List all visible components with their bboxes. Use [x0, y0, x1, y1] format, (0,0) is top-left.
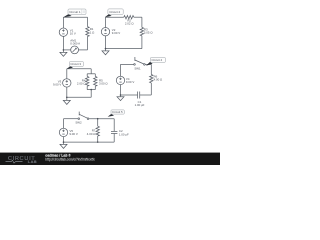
wire: C2 left lower: [105, 36, 107, 49]
resistor R6: [150, 75, 153, 84]
label box Circuit 2: [108, 9, 123, 15]
wire: C5 right lower: [113, 134, 115, 143]
svg-text:1.00 μF: 1.00 μF: [119, 132, 129, 136]
wire: C1 top: [63, 16, 87, 18]
wire: C3 left upper: [66, 69, 68, 79]
ground (circuit 5): [63, 142, 65, 144]
wire: C1 bottom left: [63, 49, 70, 51]
label R2 value: [125, 19, 134, 26]
wire: C1 left upper: [62, 17, 64, 28]
flag callout (circuit 4): [146, 62, 153, 66]
label V4 value: [126, 77, 134, 84]
svg-text:9.00 V: 9.00 V: [69, 132, 77, 136]
svg-text:Circuit 3: Circuit 3: [70, 62, 81, 66]
wire: C5 R7 branch lower: [97, 136, 99, 142]
wire: C5 top left: [64, 118, 79, 120]
label box Circuit 3: [69, 62, 83, 67]
voltage source V3: [63, 79, 71, 87]
svg-text:Circuit 4: Circuit 4: [152, 58, 163, 62]
wire: C1 right upper: [87, 17, 89, 26]
label box Circuit 1: [68, 9, 86, 15]
wire: C2 bottom: [106, 48, 142, 50]
svg-text:4.00 Ω: 4.00 Ω: [154, 78, 163, 82]
wire: C3 left branch lower lead: [86, 86, 88, 89]
svg-text:1 Ω: 1 Ω: [90, 30, 95, 34]
label R6 value: [154, 75, 163, 82]
svg-text:5.05 Ω: 5.05 Ω: [144, 31, 153, 35]
svg-text:10 V: 10 V: [70, 32, 76, 36]
svg-text:3.00 Ω: 3.00 Ω: [99, 82, 108, 86]
label box Circuit 4: [150, 58, 165, 63]
label V5 value: [69, 129, 77, 136]
svg-text:9.00 V: 9.00 V: [126, 80, 134, 84]
label AM1 value: [70, 38, 80, 45]
wire: C4 bottom right: [140, 94, 152, 96]
label V1 value: [70, 29, 76, 36]
node: C4 ground junction: [120, 94, 122, 96]
svg-text:9.00 V: 9.00 V: [53, 82, 61, 86]
wire: C4 top left: [121, 63, 134, 65]
wire: C4 top right: [145, 63, 151, 65]
voltage source V1: [59, 28, 67, 36]
node: C3 ground junction: [66, 97, 68, 99]
wire: C5 left lower: [63, 137, 65, 142]
wire: C3 right branch upper lead: [94, 74, 96, 77]
label R1 value: [90, 27, 95, 34]
wire: C4 bottom left: [121, 94, 138, 96]
wire: C3 left branch upper lead: [86, 74, 88, 77]
svg-text:LAB: LAB: [28, 160, 37, 164]
svg-text:1.00 μF: 1.00 μF: [135, 103, 145, 107]
svg-text:0.000 A: 0.000 A: [70, 41, 80, 45]
wire: C4 left upper: [120, 64, 122, 76]
label R7 value: [87, 129, 96, 136]
voltage source V4: [116, 76, 124, 84]
switch SW2: [78, 118, 80, 120]
wire: C3 bottom: [67, 96, 91, 98]
wire: C5 R7 branch upper: [97, 119, 99, 127]
label V2 value: [112, 28, 120, 35]
wire: C1 left lower: [62, 36, 64, 50]
wire: C3 right branch lower lead: [94, 86, 96, 89]
capacitor C2: [111, 130, 117, 132]
label R3 value: [144, 28, 153, 35]
wire: C2 left upper: [105, 17, 107, 27]
voltage source V2: [101, 28, 109, 36]
ammeter AM1: [71, 46, 79, 54]
wire: C3 parallel top bar: [87, 73, 95, 75]
node: C2 ground junction: [105, 48, 107, 50]
capacitor C1: [139, 92, 141, 99]
node: C1 ground junction: [63, 49, 65, 51]
wire: C2 top left: [106, 16, 124, 18]
wire: C5 top right: [89, 118, 114, 120]
wire: C4 left lower: [120, 85, 122, 95]
resistor R2: [124, 16, 134, 19]
label V3 value: [53, 79, 62, 86]
node: C5 R7 bottom junction: [97, 141, 99, 143]
switch SW1: [134, 64, 136, 66]
svg-text:Circuit 5: Circuit 5: [112, 110, 123, 114]
svg-text:9.00 V: 9.00 V: [112, 31, 120, 35]
svg-text:2.02 Ω: 2.02 Ω: [125, 22, 134, 26]
resistor R5: [94, 76, 97, 86]
wire: C3 parallel bottom bar: [87, 89, 95, 91]
ground (circuit 1): [62, 50, 64, 53]
label C2 value: [119, 129, 129, 136]
svg-text:2.00 Ω: 2.00 Ω: [77, 82, 86, 86]
ground (circuit 3): [66, 97, 68, 100]
wire: C3 drop from parallel bottom bar: [90, 90, 92, 98]
resistor R7: [96, 126, 99, 136]
svg-text:http://circuitlab.com/c/7kv5mf: http://circuitlab.com/c/7kv5mf9cx6k: [45, 157, 95, 161]
wire: C3 left lower: [66, 87, 68, 97]
wire: C2 top right: [134, 16, 142, 18]
wire: C2 right upper: [141, 17, 143, 27]
wire: C4 right upper: [150, 64, 152, 74]
node: C3 parallel bottom junction: [90, 89, 92, 91]
wire: C3 drop to parallel top bar: [90, 69, 92, 74]
flag callout (circuit 2): [105, 14, 112, 17]
wire: C2 right lower: [141, 36, 143, 49]
flag callout (circuit 1): [63, 14, 71, 17]
wire: C5 right upper: [113, 119, 115, 132]
ground (circuit 2): [105, 49, 107, 51]
wire: C5 left upper: [63, 119, 65, 129]
label R5 value: [99, 79, 108, 86]
svg-text:SW2: SW2: [75, 120, 82, 124]
wire: C1 bottom right: [79, 49, 88, 51]
label R4 value: [77, 79, 86, 86]
flag callout (circuit 5): [108, 114, 114, 117]
wire: C5 bottom: [64, 141, 115, 143]
svg-text:Circuit 1: Circuit 1: [69, 10, 81, 14]
svg-text:SW1: SW1: [134, 67, 141, 71]
svg-text:4.00 Ω: 4.00 Ω: [87, 132, 96, 136]
resistor R1: [86, 27, 89, 37]
svg-text:Circuit 2: Circuit 2: [109, 10, 120, 14]
label box Circuit 5: [111, 110, 124, 114]
flag callout (circuit 3): [67, 66, 73, 69]
node: C5 switch-R7 junction: [97, 118, 99, 120]
resistor R4: [85, 76, 88, 86]
node: C5 ground junction: [63, 141, 65, 143]
ground (circuit 4): [120, 95, 122, 97]
resistor R3: [140, 27, 143, 36]
wire: C3 top: [67, 68, 91, 70]
label C1 value: [135, 100, 145, 107]
wire: C1 right lower: [87, 36, 89, 50]
wire: C4 right lower: [150, 83, 152, 95]
voltage source V5: [59, 128, 67, 136]
